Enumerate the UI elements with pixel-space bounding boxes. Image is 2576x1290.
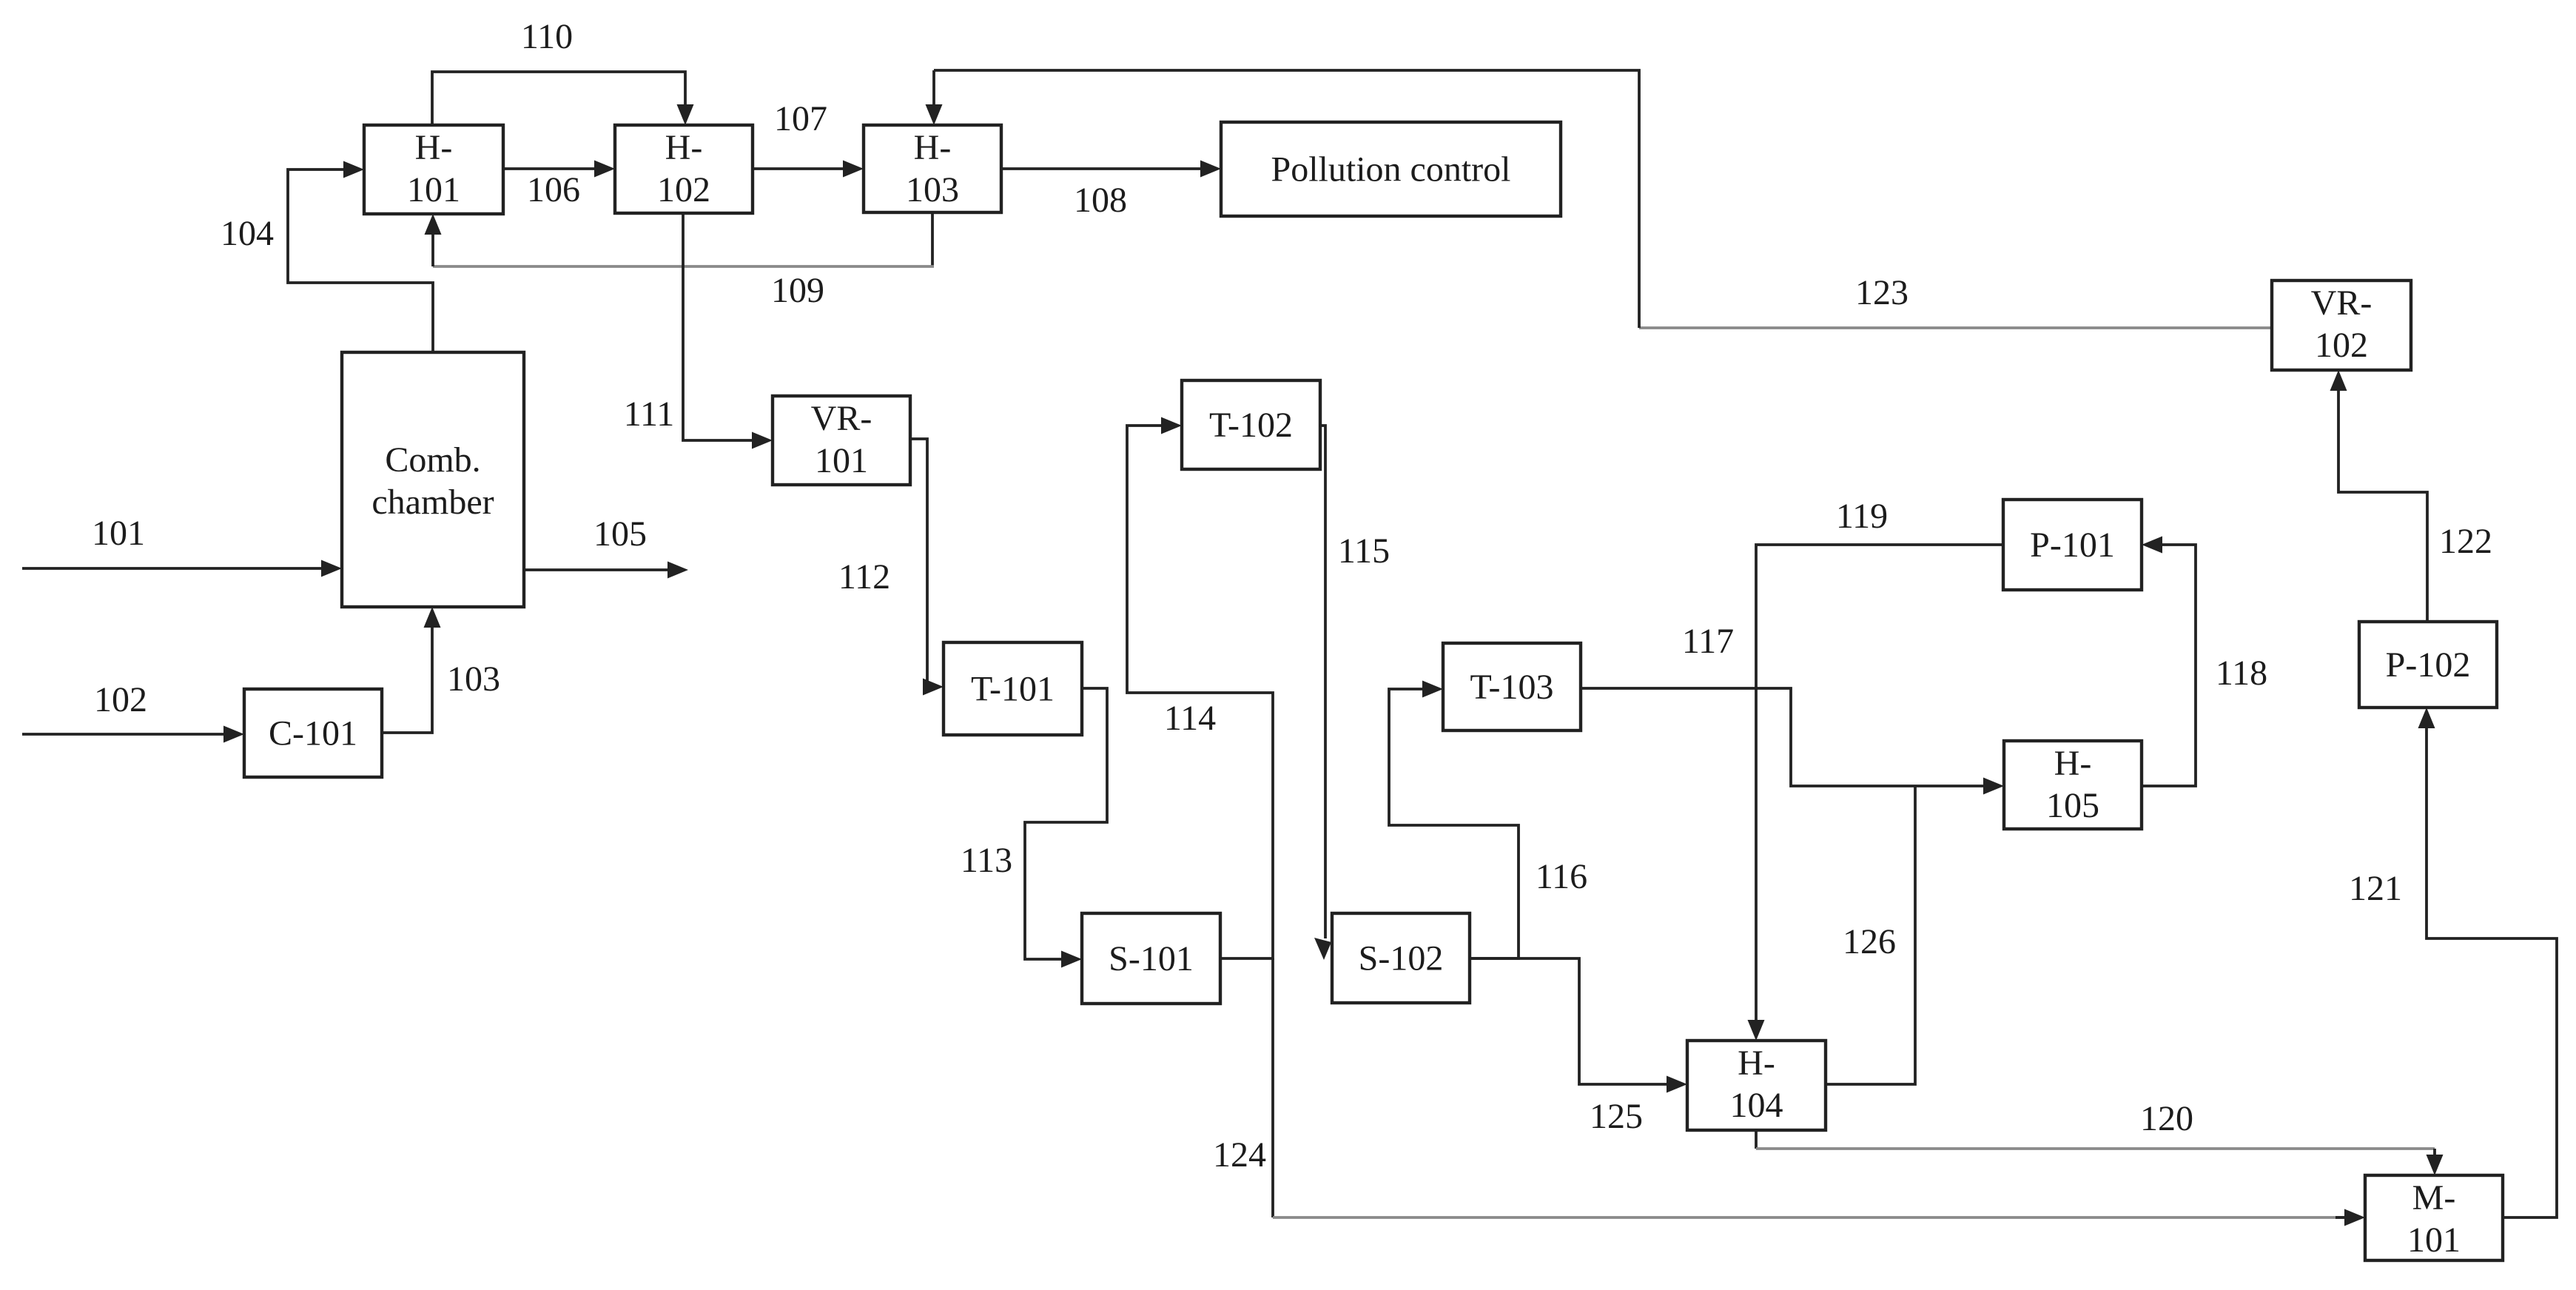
svg-text:P-101: P-101	[2030, 525, 2115, 565]
unit Comb. chamber	[342, 352, 524, 607]
svg-text:114: 114	[1164, 699, 1216, 738]
unit VR-101	[773, 396, 910, 485]
svg-text:H-: H-	[1738, 1044, 1775, 1083]
unit S-101	[1082, 913, 1220, 1004]
wire stream 117	[1581, 688, 2004, 795]
unit H-105	[2004, 741, 2142, 829]
unit H-104	[1687, 1041, 1826, 1130]
unit M-101	[2365, 1175, 2503, 1260]
svg-text:119: 119	[1836, 497, 1888, 536]
svg-text:123: 123	[1855, 273, 1909, 312]
svg-text:121: 121	[2349, 869, 2402, 908]
wire stream 115	[1314, 426, 1331, 960]
unit H-103	[864, 125, 1001, 212]
wire stream 106	[503, 161, 615, 178]
svg-text:103: 103	[447, 659, 500, 699]
svg-text:105: 105	[2046, 786, 2099, 825]
unit H-102	[615, 125, 753, 213]
svg-text:VR-: VR-	[2311, 283, 2372, 323]
svg-text:104: 104	[1730, 1086, 1783, 1125]
wire stream 111	[683, 213, 773, 449]
wire stream 103	[382, 607, 441, 733]
svg-text:H-: H-	[665, 128, 703, 167]
svg-text:120: 120	[2140, 1099, 2193, 1138]
wire stream 121	[2418, 708, 2557, 1217]
svg-text:S-101: S-101	[1109, 939, 1194, 978]
svg-text:T-102: T-102	[1209, 406, 1293, 445]
svg-text:109: 109	[771, 271, 824, 310]
wire stream 123	[926, 70, 2273, 328]
wire stream 112	[910, 439, 944, 696]
wire stream 122	[2330, 370, 2428, 622]
svg-text:101: 101	[815, 441, 868, 480]
svg-text:P-102: P-102	[2386, 645, 2471, 685]
svg-text:107: 107	[774, 99, 827, 138]
wire stream 102	[22, 726, 244, 743]
svg-text:H-: H-	[914, 128, 952, 167]
svg-text:T-101: T-101	[971, 670, 1055, 709]
svg-text:Pollution control: Pollution control	[1271, 150, 1511, 189]
wire stream 116	[1389, 681, 1519, 959]
unit H-101	[364, 125, 503, 214]
svg-text:108: 108	[1074, 181, 1127, 220]
unit P-102	[2359, 622, 2497, 708]
wire stream 109	[425, 212, 935, 266]
wire stream 114	[1127, 417, 1273, 959]
svg-text:Comb.: Comb.	[385, 440, 480, 480]
unit T-102	[1182, 380, 1320, 469]
unit T-103	[1443, 643, 1581, 730]
svg-text:116: 116	[1536, 857, 1587, 896]
wire stream 120	[1756, 1130, 2444, 1175]
svg-text:115: 115	[1338, 531, 1390, 571]
wire stream 105	[524, 562, 688, 579]
wire stream 101	[22, 560, 342, 577]
svg-text:101: 101	[2407, 1220, 2461, 1260]
wire stream 110	[432, 72, 694, 125]
svg-text:101: 101	[407, 170, 460, 209]
svg-text:102: 102	[657, 170, 710, 209]
svg-text:111: 111	[624, 394, 674, 434]
svg-text:H-: H-	[415, 128, 453, 167]
svg-text:102: 102	[2315, 326, 2368, 365]
unit VR-102	[2272, 280, 2411, 370]
unit T-101	[944, 642, 1082, 735]
svg-text:125: 125	[1590, 1097, 1643, 1136]
unit C-101	[244, 689, 382, 777]
svg-text:110: 110	[521, 17, 573, 56]
svg-text:106: 106	[527, 170, 580, 209]
svg-text:113: 113	[961, 841, 1012, 880]
svg-text:M-: M-	[2412, 1178, 2456, 1217]
svg-text:126: 126	[1843, 922, 1896, 961]
svg-text:C-101: C-101	[269, 714, 357, 753]
svg-text:101: 101	[92, 514, 145, 553]
svg-text:124: 124	[1213, 1135, 1266, 1175]
svg-text:T-103: T-103	[1470, 668, 1554, 707]
svg-text:112: 112	[838, 557, 890, 597]
unit Pollution control	[1221, 122, 1561, 216]
wire stream 108	[1001, 161, 1221, 178]
svg-text:104: 104	[221, 214, 274, 253]
svg-text:117: 117	[1682, 622, 1734, 661]
unit S-102	[1332, 913, 1470, 1003]
wire stream 107	[753, 161, 864, 178]
svg-text:S-102: S-102	[1359, 939, 1444, 978]
svg-text:105: 105	[593, 514, 647, 554]
unit P-101	[2003, 500, 2142, 590]
wire stream 118	[2142, 537, 2196, 787]
svg-text:122: 122	[2439, 522, 2492, 561]
svg-text:118: 118	[2216, 654, 2267, 693]
svg-text:H-: H-	[2054, 744, 2092, 783]
svg-text:chamber: chamber	[371, 483, 494, 522]
svg-text:103: 103	[906, 170, 959, 209]
wire stream 124	[1273, 958, 2365, 1226]
wire stream 125	[1470, 958, 1687, 1093]
wire stream 104	[288, 161, 433, 353]
wire stream 119	[1748, 545, 2004, 1041]
wire stream 113	[1025, 688, 1107, 968]
svg-text:102: 102	[94, 680, 147, 719]
wire stream 126	[1826, 786, 1915, 1084]
svg-text:VR-: VR-	[811, 399, 872, 438]
